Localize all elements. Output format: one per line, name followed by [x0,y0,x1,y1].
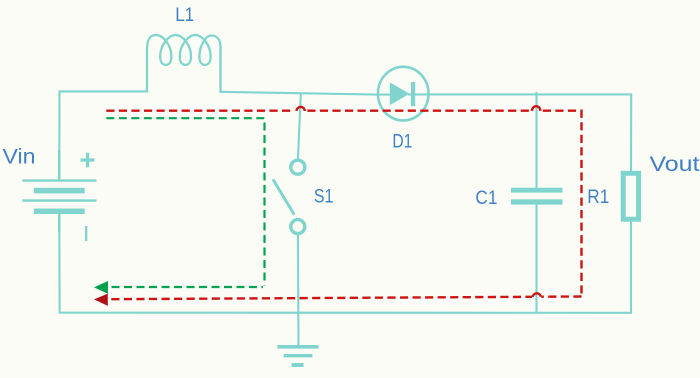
svg-text:R1: R1 [587,187,609,208]
svg-text:D1: D1 [392,132,412,153]
svg-text:C1: C1 [475,188,497,209]
svg-text:L1: L1 [175,5,194,26]
svg-text:Vout: Vout [650,153,700,176]
svg-text:Vin: Vin [3,145,36,168]
svg-text:S1: S1 [314,187,334,208]
